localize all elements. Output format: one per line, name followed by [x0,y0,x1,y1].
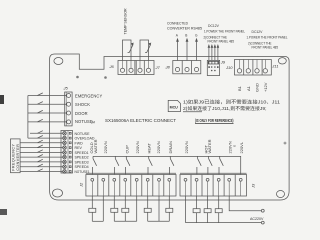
wire shock switch [28,102,67,105]
svg-text:GND: GND [255,83,260,92]
svg-text:B: B [185,34,187,38]
wire T8 down with fuse F5 [166,196,173,221]
relay switch T6 [148,156,152,174]
hole bottom-right [277,191,285,198]
svg-text:220VN: 220VN [135,141,140,153]
svg-text:SPEED3: SPEED3 [75,160,89,164]
connector J4 body [61,131,73,174]
relay switch T3 [115,156,119,174]
svg-text:J5: J5 [63,86,69,91]
PCB board outline [50,54,290,200]
svg-text:SPEED4: SPEED4 [75,165,89,169]
svg-text:B1: B1 [237,85,242,91]
AC220V neutral terminal [261,221,264,224]
wire T4 down with fuse F3 [122,196,129,221]
wire emergency switch [28,93,67,96]
svg-text:(IS ONLY FOR REFERENCE): (IS ONLY FOR REFERENCE) [195,118,234,123]
wire J4 row9 [20,169,63,172]
wire T3 down with fuse F2 [111,196,118,221]
connector J5 body [65,92,72,126]
svg-text:1)如果J9已连接，则不需要连接J10、J11: 1)如果J9已连接，则不需要连接J10、J11 [183,99,281,106]
connector J9 body [207,60,219,75]
svg-text:220VN: 220VN [103,141,108,153]
load loop T6-T8 [148,220,170,222]
svg-text:DC12V: DC12V [252,30,264,34]
svg-text:DRAIN: DRAIN [168,141,173,154]
svg-text:SPEED1: SPEED1 [75,151,89,155]
wire door switch [28,110,67,113]
wire T1 down with fuse F1 [89,196,96,221]
tiny mark right edge [284,142,286,144]
svg-text:DOOR: DOOR [75,111,88,116]
svg-text:J8: J8 [165,64,171,69]
svg-text:220VL: 220VL [239,141,244,153]
scan artifact left streak [0,209,7,215]
svg-text:HEAT: HEAT [147,143,152,154]
svg-text:AC220V: AC220V [250,217,264,221]
svg-text:J3: J3 [250,183,255,189]
svg-text:CONVERTER RS485: CONVERTER RS485 [167,27,202,31]
J4 pins [63,132,71,174]
connector J8 body [173,61,201,74]
wire J4 row4 [20,145,63,148]
live bus 220VL wire [93,156,241,174]
wire J8 pin3 up [195,34,198,61]
svg-text:MCU: MCU [170,106,179,110]
wire T11 down with fuse F7 [204,196,211,223]
temp sensor 2 loop [140,40,151,61]
wire J8 pin1 up [176,34,179,61]
svg-text:220VN: 220VN [156,141,161,153]
svg-text:J7: J7 [155,65,161,70]
AC220V live terminal [261,209,264,212]
svg-text:SX165006A ELECTRIC CONNECT: SX165006A ELECTRIC CONNECT [105,118,176,123]
svg-text:CONNECTED: CONNECTED [167,22,188,26]
relay switch T4 [126,156,130,174]
wire T7 down [158,196,160,221]
svg-text:FRONT PANEL 485: FRONT PANEL 485 [208,40,235,44]
wire J4 row6 [20,155,63,158]
connector J10 J11 body [235,60,272,76]
pad B [104,76,107,79]
svg-text:A1: A1 [246,85,251,91]
svg-text:1.POWER THE FRONT PANEL: 1.POWER THE FRONT PANEL [204,30,245,34]
svg-text:1.POWER THE FRONT PANEL: 1.POWER THE FRONT PANEL [247,36,288,40]
pad A [76,76,79,79]
neutral bus to AC220V [186,222,262,224]
wire J4 row8 [20,164,63,167]
hole top-right [278,58,286,64]
relay switch T8 [170,156,174,174]
wire T10 down with fuse F6 [193,196,200,223]
wire T2 down [102,196,104,221]
svg-text:CONVERTER: CONVERTER [16,144,20,171]
terminal strip J2 [86,173,176,196]
title underline [195,123,234,125]
hole bottom-left [53,189,63,197]
switch bus (left) [27,96,29,139]
svg-text:REV: REV [75,146,83,150]
relay switch T11 [208,156,212,174]
scan artifact left blob [0,95,4,104]
svg-text:J2: J2 [79,182,84,188]
svg-text:SHOCK: SHOCK [75,102,90,107]
wire T13 to AC220V live [229,196,261,211]
wire J4 row2 [28,136,63,139]
svg-text:J4: J4 [90,121,95,125]
wire J4 row1 [30,131,63,134]
hole top-left [54,58,63,65]
wire J4 row3 [20,140,63,143]
svg-text:2)如果连接了J10,J11,则不需要连接J9;: 2)如果连接了J10,J11,则不需要连接J9; [183,105,267,112]
wire notuse switch [28,119,67,122]
note DC12V column2 [247,30,288,50]
wire T6 down with fuse F4 [144,196,151,221]
svg-text:J9: J9 [220,60,226,65]
note DC12V column1 [204,24,246,44]
svg-text:220VN: 220VN [184,141,189,153]
wire T5 down [136,196,138,221]
wire T12 down with fuse F8 [215,196,222,223]
svg-text:+12V: +12V [263,82,268,92]
svg-text:WATER: WATER [207,139,212,153]
wire J8 pin2 up [185,34,188,61]
svg-text:FRONT PANEL 485: FRONT PANEL 485 [252,46,279,50]
svg-text:J11: J11 [271,64,278,69]
svg-text:J10: J10 [225,65,233,70]
frequency converter box [11,139,21,173]
wire J9 pin1 up [208,44,211,60]
svg-text:EMERGENCY: EMERGENCY [75,93,102,98]
wire J4 row7 [20,159,63,162]
svg-text:WATER: WATER [93,139,98,153]
svg-text:NOTUSE: NOTUSE [75,132,91,136]
connector J6 J7 block [118,61,154,75]
note underline [183,111,202,113]
svg-text:J6: J6 [109,64,115,69]
relay switch T12 [219,156,223,174]
load loop T3-T5 [114,220,136,222]
relay switch T1 [93,156,97,174]
relay switch T10 [197,156,201,174]
wire T9 down [185,196,187,223]
svg-text:FWD: FWD [75,141,84,145]
svg-text:CUP: CUP [125,145,130,154]
svg-text:SPEED2: SPEED2 [75,156,89,160]
wire J9 pin3 up [214,44,217,60]
terminal strip J3 [180,173,247,196]
MCU box U1 [168,100,180,111]
svg-text:TEMP SENSOR: TEMP SENSOR [124,8,128,34]
wire J9 pin4 up [217,44,220,60]
wire J4 row5 [20,150,63,153]
svg-text:DC12V: DC12V [208,24,220,28]
load loop T1-T2 [92,220,103,222]
wire J9 pin2 up [211,44,214,60]
temp sensor 1 loop [123,40,134,61]
